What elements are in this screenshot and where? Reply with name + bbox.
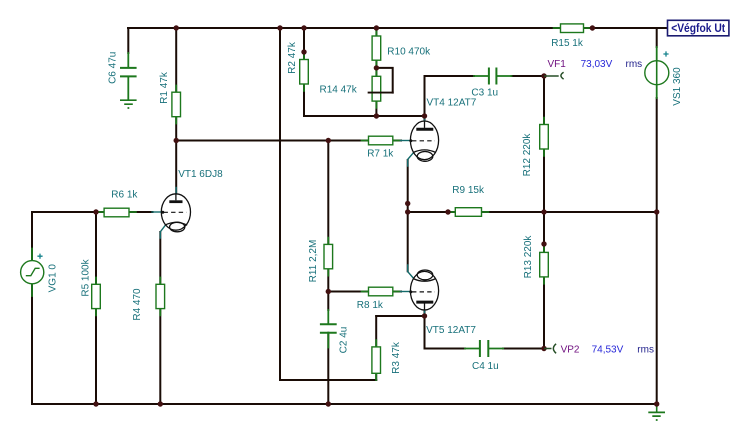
node bottom rail / R5: [93, 401, 98, 406]
node top rail / R1: [174, 25, 179, 30]
wire VT4 cathode to VT5 cathode column: [407, 160, 409, 271]
wire VT4 plate to C3 riser: [424, 76, 426, 122]
svg-text:R15 1k: R15 1k: [551, 38, 584, 49]
wire R4 bottom lead: [159, 309, 161, 404]
wire R6 to VT1 grid: [129, 211, 153, 213]
wire R7 pin stubs: [362, 140, 400, 142]
node R14 bottom / plate line: [374, 113, 379, 118]
wire R10 to R14: [375, 60, 377, 76]
wire top rail left of R15: [128, 27, 561, 29]
wire R12 pin stubs: [543, 118, 545, 156]
wire VS1 top lead: [656, 28, 658, 47]
node VT5 plate: [422, 313, 427, 318]
wire VS1 bottom column to ground: [656, 98, 658, 404]
wire R11 bottom to C2: [327, 269, 329, 310]
svg-text:VT1 6DJ8: VT1 6DJ8: [178, 169, 223, 180]
resistor R12 220k: [540, 125, 549, 150]
resistor R13 220k: [540, 252, 549, 277]
wire R11/R8 node row: [328, 291, 368, 293]
node R9 left joint: [445, 209, 450, 214]
node R12/R13/R9 junction: [541, 209, 546, 214]
wire VT5 cathode pin stub: [408, 265, 413, 278]
node bottom rail / R4: [158, 401, 163, 406]
svg-text:VP2: VP2: [561, 345, 580, 356]
wire grid row R1 to R7: [176, 140, 368, 142]
wire C4 pin stubs: [465, 348, 503, 350]
wire VG1 bottom lead: [31, 284, 33, 404]
wire VT4 plate pin stub: [424, 116, 426, 121]
node cathode row left: [405, 209, 410, 214]
probe VF1: [544, 72, 564, 79]
node VP2: [541, 346, 546, 351]
resistor R6 1k: [104, 208, 129, 217]
wire VT4 grid pin stub: [401, 140, 410, 142]
output port box Végfok Ut: [668, 20, 729, 36]
node R10/R14 junction: [374, 65, 379, 70]
wire VT1 plate lead: [175, 141, 177, 204]
svg-text:R6 1k: R6 1k: [111, 189, 138, 200]
svg-text:R10 470k: R10 470k: [387, 47, 431, 58]
wire feedback column from top rail: [279, 28, 281, 380]
wire R5 top lead from input row: [95, 212, 97, 284]
svg-text:74,53V: 74,53V: [592, 345, 624, 356]
svg-text:VS1 360: VS1 360: [672, 67, 683, 106]
wire R2 top lead: [303, 28, 305, 60]
resistor R3 47k: [372, 347, 381, 373]
wire C6 top lead: [127, 28, 129, 53]
node top rail / R2: [301, 25, 306, 30]
svg-text:R4 470: R4 470: [132, 288, 143, 321]
svg-text:VT5 12AT7: VT5 12AT7: [426, 325, 476, 336]
svg-text:R8 1k: R8 1k: [357, 300, 384, 311]
wire R11 top lead from grid row: [327, 141, 329, 245]
svg-text:R11 2,2M: R11 2,2M: [308, 240, 319, 283]
resistor R9 15k: [455, 208, 481, 217]
wire C2 pin stubs: [327, 310, 329, 348]
wire R3 top lead: [375, 316, 377, 347]
wire R15 pin stubs: [554, 27, 591, 29]
wire C4 left run: [425, 348, 466, 350]
svg-text:rms: rms: [637, 345, 654, 356]
wire R10 pin stubs: [375, 30, 377, 67]
node top rail / R10: [374, 25, 379, 30]
wire R8 pin stubs: [362, 291, 400, 293]
wire R9 to VS1 column: [482, 211, 657, 213]
wire R11 pin stubs: [327, 238, 329, 276]
wire R3 pin stubs: [375, 340, 377, 380]
node VF1: [541, 73, 546, 78]
svg-text:VF1: VF1: [548, 59, 567, 70]
wire VT1 grid pin stub: [152, 211, 162, 213]
svg-text:C6 47u: C6 47u: [108, 52, 119, 84]
wire feedback bottom run to R3: [280, 379, 376, 381]
svg-text:R5 100k: R5 100k: [81, 258, 92, 296]
wire R2 pin stubs: [303, 53, 305, 91]
node cathode column joint: [405, 201, 410, 206]
wire R14 pin stubs: [375, 70, 377, 108]
resistor R14 47k potentiometer body: [372, 76, 381, 101]
node VT4 plate: [422, 113, 427, 118]
wire node B run R2 to R14: [304, 115, 376, 117]
node top rail / R15 right: [590, 25, 595, 30]
wire C6 pin stubs: [127, 53, 129, 100]
resistor R11 2,2M: [324, 244, 333, 268]
svg-text:C2 4u: C2 4u: [339, 327, 350, 354]
node top rail / feedback column: [277, 25, 282, 30]
wire R7 to VT4 grid: [393, 140, 401, 142]
wire VT5 plate lead down: [424, 304, 426, 349]
wire input row VG1 to R6: [32, 211, 104, 213]
node R11 bottom / R8: [326, 289, 331, 294]
wire C2 bottom lead: [327, 333, 329, 404]
node bottom rail / ground: [654, 401, 659, 406]
wire VF1 node to R12: [543, 76, 545, 125]
wire C3 left run: [425, 75, 475, 77]
resistor R2 47k: [300, 60, 309, 85]
wire R14 bottom lead: [375, 101, 377, 116]
svg-text:R1 47k: R1 47k: [159, 71, 170, 104]
label VG1 plus: [37, 254, 42, 259]
wire VT4 cathode pin stub: [408, 153, 413, 166]
svg-text:R12 220k: R12 220k: [522, 133, 533, 177]
ground at C6: [120, 100, 137, 108]
wire top rail right of R15 to output box: [584, 27, 668, 29]
wire R4 pin stubs: [159, 278, 161, 316]
resistor R8 1k: [369, 287, 393, 296]
svg-text:73,03V: 73,03V: [581, 59, 613, 70]
wire VT1 plate pin stub: [175, 188, 177, 194]
wire R5 bottom lead: [95, 309, 97, 404]
wire R12 to R13: [543, 149, 545, 252]
wire VT5 grid pin stub: [401, 291, 410, 293]
wire R5 pin stubs: [95, 278, 97, 316]
wire R13 to VP2 node: [543, 277, 545, 349]
wire R3 bottom lead riser: [375, 373, 377, 380]
wire cathode row to R9: [408, 211, 456, 213]
probe VP2: [544, 344, 556, 354]
wire R2 bottom lead: [303, 84, 305, 116]
resistor R1 47k: [172, 92, 181, 117]
wire bottom rail: [32, 403, 657, 405]
svg-text:VT4 12AT7: VT4 12AT7: [427, 98, 477, 109]
source VG1 0: [21, 261, 44, 284]
node R11 top: [326, 138, 331, 143]
svg-text:C4 1u: C4 1u: [472, 361, 499, 372]
wire VG1 pin stubs: [31, 249, 33, 297]
svg-text:R13 220k: R13 220k: [523, 235, 534, 279]
wire VT1 cathode pin stub: [160, 226, 165, 238]
resistor R10 470k: [372, 36, 381, 60]
capacitor C3 1u: [489, 68, 497, 85]
wire VT5 plate pin stub: [424, 311, 426, 317]
node bottom rail / C2: [326, 401, 331, 406]
wire C4 right run to VP2 node: [503, 348, 544, 350]
wire VG1 top lead: [31, 212, 33, 261]
tube VT5 12AT7: [409, 270, 438, 310]
resistor R5 100k: [92, 284, 101, 308]
wire R6 pin stubs: [97, 211, 136, 213]
wire C3 right run to VF1 node: [512, 75, 545, 77]
svg-text:R3 47k: R3 47k: [391, 341, 402, 374]
svg-text:R2 47k: R2 47k: [287, 41, 298, 74]
svg-text:VG1 0: VG1 0: [48, 264, 59, 293]
resistor R15 1k: [561, 24, 584, 33]
wire node B run R14 to VT4 plate: [376, 115, 424, 117]
wire R4 top lead from VT1 cathode: [159, 232, 161, 284]
wire R9 pin stubs: [448, 211, 488, 213]
wire R14 wiper bypass: [376, 68, 392, 93]
wire R10 top lead: [375, 28, 377, 36]
resistor R7 1k: [369, 136, 393, 145]
svg-text:R9 15k: R9 15k: [452, 185, 485, 196]
capacitor C4 1u: [480, 340, 488, 357]
wire R1 column from top rail: [175, 28, 177, 92]
wire R13 pin stubs: [543, 246, 545, 284]
ground at bottom right: [648, 404, 665, 420]
resistor R4 470: [156, 284, 165, 308]
svg-text:<Végfok Ut: <Végfok Ut: [671, 23, 725, 35]
svg-text:R14 47k: R14 47k: [320, 84, 358, 95]
wire VT5 plate node to R3 top: [376, 315, 424, 317]
tube VT1 6DJ8: [161, 194, 190, 232]
wire R8 to VT5 grid: [393, 291, 401, 293]
wire R1 bottom to node A: [175, 117, 177, 141]
node VS1 column / cathode row: [654, 209, 659, 214]
node R13 top joint: [541, 241, 546, 246]
capacitor C6 47u: [120, 68, 137, 77]
capacitor C2 4u: [320, 324, 337, 333]
svg-text:rms: rms: [626, 59, 643, 70]
node input row / R5: [93, 209, 98, 214]
label VS1 plus: [663, 51, 668, 56]
tube VT4 12AT7: [409, 121, 438, 161]
wire VS1 pin stubs and through-line: [656, 47, 658, 98]
source VS1 360: [645, 61, 669, 85]
wire R1 pin stubs: [175, 86, 177, 124]
node R2 lead joint: [301, 49, 306, 54]
node R1 bottom / grid row: [174, 138, 179, 143]
wire C3 pin stubs: [474, 75, 512, 77]
wire R14 wiper tap: [369, 92, 393, 94]
svg-text:R7 1k: R7 1k: [367, 148, 394, 159]
